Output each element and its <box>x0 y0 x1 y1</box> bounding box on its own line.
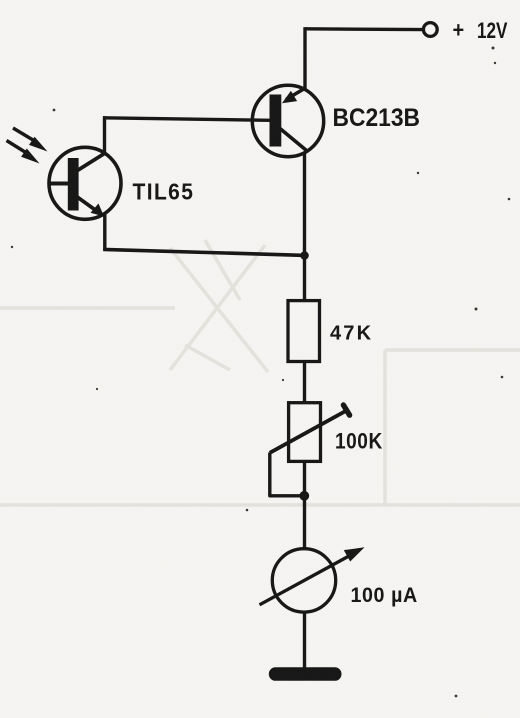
wire: main vertical rail (BC213B collector to ground) <box>303 152 306 669</box>
scan noise overlay (decorative) <box>0 0 1 1</box>
transistor Q1 BC213B (PNP) <box>252 85 323 156</box>
phototransistor Q2 TIL65 <box>48 147 121 219</box>
wire: top horizontal to +12V terminal <box>305 27 424 31</box>
wire: wiper return to bottom junction <box>270 453 301 496</box>
light arrow 1 <box>13 128 48 152</box>
wire: vertical from top corner down to BC213B emitter <box>303 27 306 90</box>
junction node B (wiper to rail) <box>299 491 309 501</box>
meter M1 100uA <box>260 547 365 612</box>
junction node A (base rail to collector rail) <box>300 251 309 260</box>
wire: base wire from left loop to BC213B <box>103 118 271 121</box>
resistor R1 47K <box>288 301 320 362</box>
wire: left loop top vertical above TIL65 <box>103 116 106 152</box>
potentiometer P1 100K <box>270 403 350 462</box>
faint scan watermark lines <box>0 240 520 505</box>
light arrow 2 <box>7 141 40 164</box>
wire: left loop bottom vertical below TIL65 <box>103 215 106 251</box>
ground <box>269 667 342 681</box>
wire: left loop bottom horizontal to junction <box>103 249 305 255</box>
terminal +12V (open circle) <box>423 23 437 37</box>
